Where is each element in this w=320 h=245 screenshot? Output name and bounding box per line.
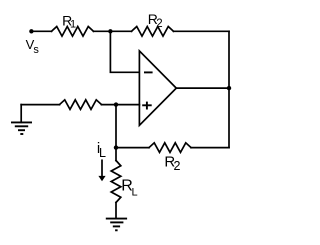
wire RL to ground [115,203,117,219]
op-amp inverting input symbol - [144,71,153,73]
node B (output junction on right rail) [227,86,231,90]
resistor RL [111,161,121,203]
op-amp U1 [139,51,176,125]
current arrow iL [101,160,103,176]
svg-text:1: 1 [70,19,76,31]
node Vs (input terminal dot) [29,29,33,33]
wire node D down to RL [115,148,117,161]
wire Vs to R1 [31,30,51,32]
svg-text:2: 2 [156,18,162,30]
node D (load junction) [114,145,118,149]
wire R2 top to right rail [174,30,230,32]
wire R1 to node A [94,30,132,32]
svg-text:2: 2 [174,159,181,173]
resistor R1 [52,27,94,37]
op-amp non-inverting input symbol + [142,104,152,106]
wire R2 bottom to right rail [191,147,229,149]
svg-text:s: s [33,44,39,56]
ground (left, at non-inverting network) [20,105,22,123]
wire resistor to non-inverting input through node C [102,104,140,106]
node A (junction of R1, R2 top, inverting branch) [108,29,112,33]
ground (bottom, below RL) [106,218,127,220]
wire left ground to unlabeled resistor [21,104,59,106]
wire right rail vertical (top R2 to output node to bottom R2) [228,31,230,147]
wire node D to R2 bottom [116,147,149,149]
resistor R2 (top) [132,27,174,37]
node C (non-inverting input junction) [114,102,118,106]
svg-text:L: L [99,146,106,160]
resistor (unlabeled, ground to non-inverting input) [60,100,102,110]
wire op-amp output to node B [176,87,229,89]
wire node C down to node D [115,105,117,148]
wire node A down to inverting input [110,31,139,72]
resistor R2 (bottom feedback) [149,143,191,153]
svg-text:L: L [132,187,138,199]
